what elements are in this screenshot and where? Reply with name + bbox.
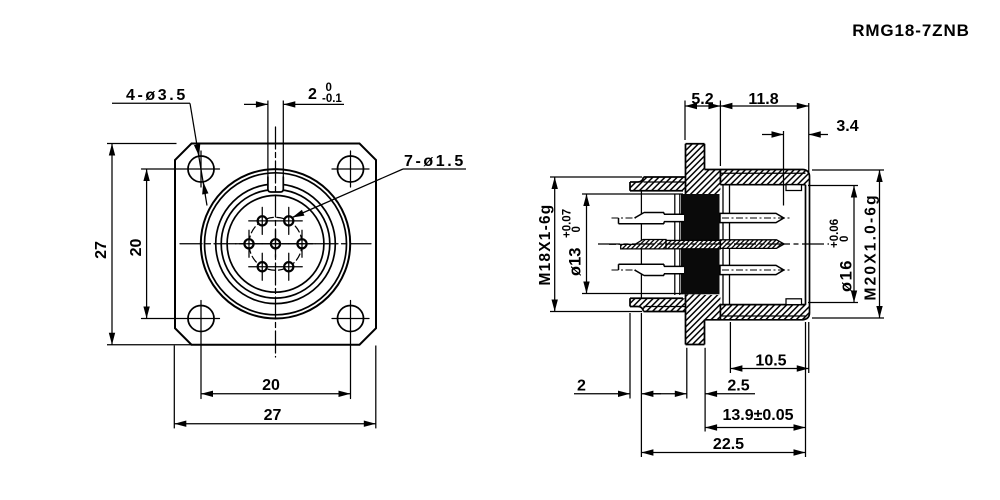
hatched M18 bottom wing	[630, 298, 686, 311]
dim M20X1.0-6g	[812, 169, 884, 171]
hatched flange top	[686, 144, 705, 194]
thread relief notch bottom	[786, 299, 802, 305]
dim 27 vertical left	[107, 143, 177, 145]
dim d13 +0.07/0	[582, 193, 683, 195]
dim d16 +0.06/0	[808, 185, 858, 187]
hatched flange bottom	[686, 294, 705, 344]
dim 22.5	[641, 452, 805, 454]
svg-text:+0.06: +0.06	[829, 219, 841, 248]
thread relief notch top	[786, 185, 802, 191]
svg-text:10.5: 10.5	[755, 353, 786, 370]
dim 2	[629, 313, 631, 399]
hatched M18 top wing	[630, 177, 686, 191]
main centerline	[598, 243, 829, 245]
svg-text:2: 2	[308, 86, 317, 103]
contact pin 2 front (middle, sectioned)	[720, 240, 784, 249]
contact pin 2 shaft through insert	[666, 240, 720, 248]
svg-text:M18X1-6g: M18X1-6g	[537, 204, 554, 286]
cavity rear wall line	[640, 191, 642, 298]
pin bottom-left	[258, 262, 267, 271]
pin center	[244, 216, 306, 271]
pin top-right	[284, 216, 293, 225]
svg-text:20: 20	[128, 239, 145, 257]
svg-text:RMG18-7ZNB: RMG18-7ZNB	[852, 21, 970, 40]
centerline horizontal	[180, 243, 371, 245]
svg-text:ø16: ø16	[838, 259, 856, 292]
dim 20 horizontal bottom	[201, 393, 351, 395]
dim 27 horizontal bottom	[173, 346, 175, 429]
insulator insert black upper	[681, 194, 720, 240]
contact pin 1 front (top)	[720, 213, 784, 222]
dim 2 0/-0.1 keyway	[267, 101, 269, 178]
keyway slot	[268, 178, 283, 192]
flange outline	[686, 144, 705, 345]
shell circle outer	[201, 169, 350, 318]
svg-text:0: 0	[839, 236, 851, 242]
pin bolt circle dashed	[249, 217, 302, 270]
dim M18X1-6g	[550, 176, 642, 178]
M18 thread root lines	[644, 182, 686, 307]
dim 3.4	[783, 131, 785, 206]
svg-text:3.4: 3.4	[836, 118, 858, 135]
pin left	[244, 239, 253, 248]
svg-text:20: 20	[262, 377, 280, 394]
insert rear face lines	[674, 194, 676, 295]
pin bottom-right	[284, 262, 293, 271]
contact pin 2 rear (middle, sectioned)	[621, 240, 666, 249]
thread circle M18	[205, 173, 347, 315]
contact pin 1 rear (top)	[619, 213, 685, 224]
mounting hole bottom-left	[188, 306, 214, 332]
dim 5.2	[684, 101, 686, 141]
svg-text:13.9±0.05: 13.9±0.05	[722, 407, 793, 424]
svg-text:22.5: 22.5	[713, 436, 744, 453]
svg-text:27: 27	[93, 241, 110, 259]
mounting hole bottom-right	[338, 306, 364, 332]
svg-text:ø13: ø13	[567, 248, 585, 276]
insert front face lines	[722, 185, 724, 305]
svg-text:-0.1: -0.1	[322, 93, 342, 105]
svg-text:27: 27	[264, 407, 282, 424]
svg-text:7-ø1.5: 7-ø1.5	[404, 153, 466, 170]
circle d16	[216, 184, 336, 304]
svg-text:11.8: 11.8	[748, 91, 778, 108]
flange square with chamfered corners	[175, 144, 376, 345]
right body outline	[705, 170, 810, 320]
M20 thread root lines	[720, 173, 805, 316]
dim 10.5	[729, 322, 731, 373]
dim 11.8	[808, 103, 810, 172]
dim 20 vertical left	[146, 169, 148, 319]
svg-text:2.5: 2.5	[727, 378, 749, 395]
hatched right body bottom wall	[705, 295, 810, 320]
M18 section outline	[630, 177, 686, 312]
mounting hole top-left	[188, 156, 214, 182]
svg-text:2: 2	[577, 378, 586, 395]
hatched right body top wall	[705, 170, 810, 195]
centerline vertical	[275, 127, 277, 357]
insulator insert black lower	[681, 249, 720, 294]
circle insert d13	[227, 195, 324, 292]
pin crosshairs	[236, 207, 316, 280]
contact pin 3 front (bottom)	[720, 265, 784, 274]
svg-text:M20X1.0-6g: M20X1.0-6g	[863, 193, 880, 300]
svg-text:5.2: 5.2	[691, 91, 713, 108]
pin top-left	[258, 216, 267, 225]
contact pin 3 rear (bottom)	[619, 264, 685, 275]
svg-text:0: 0	[571, 226, 583, 232]
dim 13.9±0.05	[805, 322, 807, 457]
dim 2.5	[686, 348, 688, 399]
pin right	[297, 239, 306, 248]
svg-text:+0.07: +0.07	[562, 209, 574, 238]
svg-text:4-ø3.5: 4-ø3.5	[126, 87, 188, 104]
circle insert outer	[221, 190, 330, 299]
mounting hole top-right	[338, 156, 364, 182]
